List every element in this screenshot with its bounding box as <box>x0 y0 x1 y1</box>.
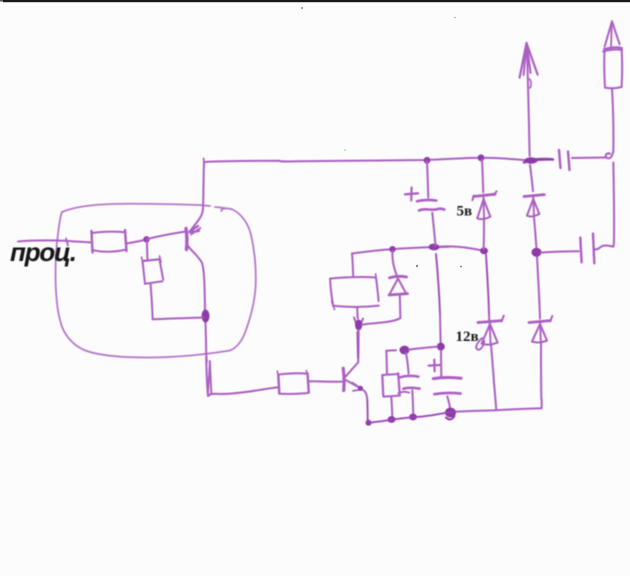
svg-text:5в: 5в <box>457 204 473 220</box>
svg-text:12в: 12в <box>456 329 479 345</box>
svg-text:проц.: проц. <box>10 237 77 267</box>
